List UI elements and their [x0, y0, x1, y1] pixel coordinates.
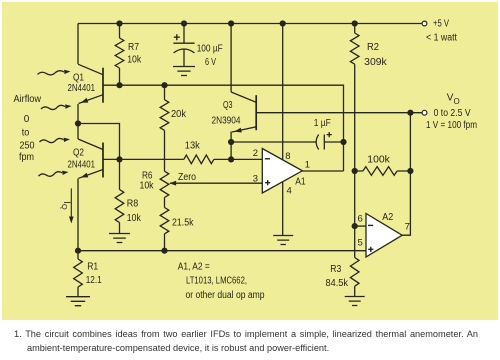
- svg-text:10k: 10k: [127, 55, 142, 66]
- svg-text:Q3: Q3: [223, 100, 233, 111]
- svg-text:2N4401: 2N4401: [68, 160, 96, 171]
- svg-text:R1: R1: [87, 262, 98, 273]
- svg-text:20k: 20k: [171, 109, 187, 120]
- svg-text:13k: 13k: [185, 140, 201, 151]
- svg-text:Airflow: Airflow: [14, 94, 42, 105]
- svg-text:< 1 watt: < 1 watt: [426, 33, 457, 44]
- svg-text:1 µF: 1 µF: [314, 118, 331, 129]
- svg-text:2: 2: [253, 148, 258, 159]
- svg-text:A1: A1: [295, 176, 306, 187]
- svg-text:7: 7: [405, 221, 410, 232]
- svg-text:Q2: Q2: [73, 147, 84, 158]
- svg-text:Zero: Zero: [178, 172, 196, 183]
- svg-text:21.5k: 21.5k: [172, 218, 194, 229]
- svg-text:to: to: [22, 128, 30, 139]
- svg-text:10k: 10k: [140, 180, 155, 191]
- svg-text:2N4401: 2N4401: [68, 83, 96, 94]
- svg-text:A1, A2 =: A1, A2 =: [178, 261, 210, 272]
- svg-text:R3: R3: [330, 264, 341, 275]
- svg-text:4: 4: [287, 185, 292, 196]
- svg-text:250: 250: [20, 140, 35, 151]
- svg-text:2N3904: 2N3904: [212, 116, 241, 127]
- svg-text:+5 V: +5 V: [433, 19, 449, 30]
- svg-text:IQ: IQ: [60, 201, 72, 210]
- svg-text:VO: VO: [447, 92, 460, 105]
- svg-text:309k: 309k: [364, 57, 388, 68]
- svg-text:fpm: fpm: [19, 152, 34, 163]
- svg-text:12.1: 12.1: [86, 275, 102, 286]
- svg-text:R2: R2: [367, 42, 379, 53]
- svg-text:84.5k: 84.5k: [326, 278, 349, 289]
- svg-text:R8: R8: [127, 199, 139, 210]
- svg-text:8: 8: [285, 151, 290, 162]
- svg-text:0: 0: [24, 114, 30, 125]
- svg-text:6: 6: [358, 214, 363, 225]
- svg-text:R7: R7: [128, 42, 139, 53]
- svg-text:A2: A2: [382, 212, 393, 223]
- svg-text:1: 1: [305, 159, 310, 170]
- svg-text:3: 3: [253, 173, 258, 184]
- svg-text:0 to 2.5 V: 0 to 2.5 V: [434, 108, 471, 119]
- svg-text:5: 5: [358, 238, 363, 249]
- svg-text:10k: 10k: [127, 213, 142, 224]
- svg-text:100k: 100k: [367, 154, 391, 165]
- svg-text:1 V = 100 fpm: 1 V = 100 fpm: [426, 120, 477, 131]
- svg-text:100 µF: 100 µF: [197, 44, 223, 55]
- svg-text:LT1013, LMC662,: LT1013, LMC662,: [186, 276, 247, 287]
- svg-text:6 V: 6 V: [205, 57, 216, 68]
- svg-text:or other dual op amp: or other dual op amp: [186, 290, 265, 301]
